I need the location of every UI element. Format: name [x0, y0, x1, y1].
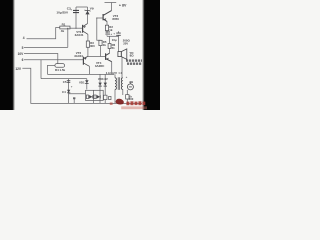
- wire R6 to V13 collector: [109, 49, 111, 54]
- wire R4 left lead: [48, 65, 55, 74]
- wire C5 tee to component box: [69, 93, 86, 95]
- svg-text:10μ/25V: 10μ/25V: [56, 10, 69, 14]
- svg-text:VD1: VD1: [79, 81, 85, 85]
- right black margin: [145, 0, 161, 110]
- transistor V12: [83, 56, 89, 66]
- svg-text:51: 51: [112, 46, 116, 50]
- wire +8V stub bar: [105, 2, 117, 4]
- left black margin: [0, 0, 13, 110]
- small box on VD3 right chain: [104, 95, 108, 99]
- terminal stub on bus: [73, 98, 75, 103]
- wire terminal a: [27, 28, 60, 39]
- zener diode V9: [85, 10, 90, 15]
- wire V10 collector vertical: [111, 3, 113, 11]
- capacitor on emitter chain: [105, 32, 112, 36]
- svg-text:4k: 4k: [61, 29, 65, 33]
- wire terminal 12V down to bottom bus: [22, 68, 144, 103]
- svg-text:V9: V9: [90, 7, 94, 11]
- diode VD1: [85, 80, 89, 83]
- wire V12 emitter down to line A: [88, 66, 90, 74]
- small box right chain: [126, 95, 129, 99]
- wire terminal c to V12 base: [24, 59, 83, 61]
- wire transformer left bottom: [114, 89, 116, 103]
- svg-text:+: +: [113, 31, 115, 35]
- wire c branch down: [40, 60, 42, 79]
- component box with two diode cells: [86, 90, 104, 100]
- wire transformer left top: [114, 74, 116, 77]
- svg-text:25V: 25V: [123, 41, 128, 45]
- svg-text:+: +: [110, 32, 112, 36]
- label speaker row2: [127, 63, 141, 65]
- wire speaker branch cap stub: [118, 31, 120, 33]
- wire vertical b to base node: [67, 28, 69, 47]
- node dot bias corner: [96, 17, 97, 18]
- transformer T: [115, 77, 123, 90]
- wire C3 branch vertical: [75, 7, 77, 28]
- resistor R4 oval: [55, 64, 65, 68]
- capacitor C4 lower: [67, 90, 70, 93]
- wire speaker branch vertical: [118, 35, 120, 51]
- wire tee to speaker branch: [107, 35, 119, 37]
- svg-text:VD3 8V: VD3 8V: [98, 77, 108, 81]
- svg-text:R1: R1: [62, 22, 66, 26]
- wire terminal 10V: [24, 54, 58, 64]
- wire V11 emitter chain to R3: [87, 34, 89, 41]
- svg-text:+ 8V: + 8V: [119, 3, 127, 7]
- wire V10 emitter chain: [106, 21, 108, 25]
- diode VD3 left: [98, 83, 101, 87]
- wire VD3 chain right: [104, 74, 106, 103]
- resistor R3: [86, 41, 89, 47]
- circle component: [127, 84, 133, 90]
- diode VD3 right: [104, 83, 107, 87]
- wire bias chain vertical: [97, 18, 101, 40]
- node dot b junction: [67, 28, 68, 29]
- wire V10 base from bias chain corner: [97, 17, 103, 19]
- red character row: [126, 101, 145, 105]
- svg-text:C5: C5: [63, 80, 67, 84]
- svg-text:200: 200: [129, 97, 134, 101]
- svg-text:R4 1.5k: R4 1.5k: [55, 68, 66, 72]
- wire box bottom to bus: [92, 100, 94, 103]
- wire R3 to V12 collector node: [87, 47, 89, 56]
- wire terminal b: [24, 46, 68, 48]
- svg-text:3AX31: 3AX31: [74, 54, 83, 58]
- resistor R6: [108, 44, 111, 49]
- wire base chain to V13 base line: [100, 46, 102, 57]
- transistor V11: [83, 24, 88, 35]
- wire VD3 chain left: [99, 74, 101, 103]
- capacitor speaker branch: [113, 31, 121, 35]
- svg-text:10μ: 10μ: [112, 38, 117, 42]
- svg-text:12V: 12V: [15, 67, 22, 71]
- svg-text:+: +: [71, 85, 73, 89]
- capacitor C5: [67, 81, 71, 83]
- wire R2 to cap: [106, 31, 108, 34]
- wire line A: [48, 73, 115, 75]
- transistor V10: [103, 11, 111, 22]
- wire V11 base: [70, 27, 83, 29]
- red stamp splotch: [116, 99, 124, 105]
- wire line B: [41, 78, 87, 80]
- svg-text:1k: 1k: [103, 43, 107, 47]
- wire V13 emitter to line A: [111, 62, 113, 75]
- svg-text:C4: C4: [62, 90, 66, 94]
- resistor R5 on bias chain: [99, 40, 102, 45]
- small mark right of box: [109, 96, 111, 99]
- transistor V13: [106, 53, 112, 62]
- resistor R1: [60, 26, 70, 29]
- svg-text:4: 4: [23, 36, 25, 40]
- svg-text:8050: 8050: [112, 17, 119, 21]
- wire VD1 chain: [86, 79, 88, 90]
- speaker: [118, 49, 127, 59]
- red smudge bottom row: [121, 106, 147, 109]
- wire zener branch vertical: [87, 7, 89, 24]
- svg-text:8Ω: 8Ω: [130, 54, 135, 58]
- wire R1 to base node: [69, 27, 71, 30]
- wire transformer right bottom: [122, 89, 124, 95]
- svg-text:3A2RC: 3A2RC: [95, 64, 105, 68]
- wire cap to tee: [106, 35, 108, 36]
- wire C5 chain: [68, 79, 70, 104]
- svg-text:5: 5: [22, 46, 24, 50]
- wire speaker to transformer right: [121, 57, 123, 78]
- wire top bus: [76, 6, 88, 8]
- svg-text:+: +: [126, 75, 128, 79]
- node dot C3 base junction: [76, 28, 77, 29]
- red smudge small: [110, 102, 113, 105]
- page background: [0, 0, 160, 110]
- svg-text:300: 300: [90, 44, 95, 48]
- resistor R2: [105, 25, 108, 30]
- wire tee down to R6: [109, 36, 111, 43]
- wire V13 base from V12 collector: [88, 56, 106, 58]
- label speaker row1: [126, 59, 143, 61]
- svg-text:3AX31: 3AX31: [75, 33, 84, 37]
- svg-text:10V: 10V: [18, 52, 25, 56]
- svg-text:6: 6: [22, 58, 24, 62]
- wire circle stub: [129, 82, 131, 84]
- wire circle to box to bus: [126, 90, 128, 104]
- capacitor C3: [70, 8, 79, 13]
- svg-text:1A/12V ×4: 1A/12V ×4: [106, 71, 123, 75]
